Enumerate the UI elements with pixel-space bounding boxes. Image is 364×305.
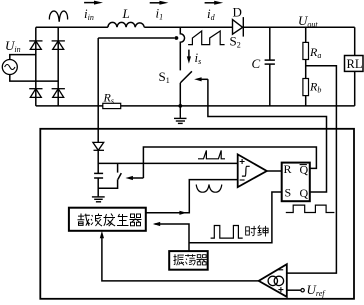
diode top-right xyxy=(52,41,65,50)
node dot S1 top xyxy=(175,36,179,40)
comparator U1 xyxy=(238,154,267,187)
wire RL xyxy=(354,27,356,106)
diode bottom-left xyxy=(29,89,42,98)
svg-text:Uref: Uref xyxy=(307,282,327,298)
resistor Rb xyxy=(303,79,309,96)
minus sign comparator xyxy=(240,179,245,181)
arrow sample xyxy=(131,177,143,179)
switch sample blade xyxy=(118,173,121,179)
plus sign error amp xyxy=(278,287,283,292)
carrier scallop waveform xyxy=(196,185,222,193)
AC source U_in xyxy=(2,60,17,75)
arrow i_1 xyxy=(150,2,161,4)
arrow i_d xyxy=(205,2,216,4)
wire source bottom xyxy=(10,75,58,82)
label text 载 xyxy=(78,214,90,226)
arrow gate into S1 xyxy=(200,78,208,80)
label text 钟 xyxy=(258,225,269,236)
svg-text:S1: S1 xyxy=(159,69,170,85)
svg-text:Q: Q xyxy=(300,186,309,200)
svg-text:Uin: Uin xyxy=(5,38,21,54)
svg-text:iin: iin xyxy=(84,6,94,22)
arrow clock into carrier xyxy=(153,222,160,226)
label text 器2 xyxy=(196,255,207,265)
label text 时 xyxy=(246,226,257,236)
capacitor sample xyxy=(94,173,103,178)
svg-text:Ra: Ra xyxy=(309,45,321,60)
wire diode to node xyxy=(97,150,99,173)
wire sense vertical xyxy=(97,38,99,142)
label text 发 xyxy=(104,214,116,227)
capacitor C xyxy=(269,27,271,106)
label text 振 xyxy=(174,254,184,265)
svg-text:Q: Q xyxy=(300,163,309,177)
EMI choke xyxy=(49,11,67,22)
wire top rail left xyxy=(36,26,108,28)
label text 器1 xyxy=(130,214,142,226)
svg-text:is: is xyxy=(195,50,202,66)
load box RL xyxy=(345,56,364,72)
wire error plus input xyxy=(287,289,301,291)
junction dot ground xyxy=(178,104,182,108)
infinity circles xyxy=(268,276,277,285)
flipflop U2 xyxy=(282,163,310,202)
resistor Ra xyxy=(303,42,309,59)
diode sample xyxy=(93,142,104,150)
node line to comparator xyxy=(98,162,238,164)
divider wire xyxy=(305,27,307,106)
label text 波 xyxy=(91,214,102,227)
wire comparator out xyxy=(267,170,282,172)
svg-text:Rb: Rb xyxy=(309,80,321,95)
inductor L xyxy=(108,22,144,27)
error amp U3 xyxy=(259,264,287,297)
resistor Rs xyxy=(103,103,121,108)
oscillator box xyxy=(169,251,208,270)
wire osc up xyxy=(155,224,189,251)
wire top rail mid xyxy=(144,26,232,28)
wire Qbar xyxy=(143,147,316,178)
wire S1 vertical with hop xyxy=(180,27,184,70)
wire S1 branch top xyxy=(98,37,174,39)
switch sample bottom xyxy=(98,179,117,188)
carrier generator box xyxy=(69,208,146,231)
wire top rail right xyxy=(243,26,355,28)
wire S input xyxy=(189,192,282,243)
arrow into carrier gen xyxy=(100,231,104,238)
label text 荡 xyxy=(185,254,196,265)
bridge left column xyxy=(35,27,37,106)
wire cap to ground xyxy=(97,178,99,196)
diode top-left xyxy=(29,41,42,50)
switch sample top stub xyxy=(117,163,119,172)
wire S1 lower xyxy=(179,83,181,106)
svg-text:C: C xyxy=(252,56,261,71)
diode D xyxy=(233,17,244,36)
bottom rail xyxy=(36,105,355,107)
svg-text:D: D xyxy=(233,5,242,20)
wire minus input xyxy=(146,180,238,213)
svg-text:Uout: Uout xyxy=(298,13,318,29)
step symbol comparator xyxy=(242,166,250,176)
ground power xyxy=(174,106,187,124)
svg-text:L: L xyxy=(122,6,130,21)
svg-text:i1: i1 xyxy=(156,6,164,22)
arrow is xyxy=(188,50,190,58)
arrow i_in xyxy=(84,2,95,4)
svg-text:RL: RL xyxy=(347,57,363,71)
is waveform xyxy=(188,31,225,45)
bridge right column xyxy=(57,27,59,106)
control box xyxy=(40,129,354,299)
arrow carrier out xyxy=(179,211,186,215)
svg-text:Rs: Rs xyxy=(103,91,114,106)
overbar Q xyxy=(300,164,307,166)
label text 生 xyxy=(117,214,129,226)
Q waveform xyxy=(286,205,335,212)
diode bottom-right xyxy=(52,89,65,98)
plus sign comparator xyxy=(240,159,245,164)
terminal Uref xyxy=(301,289,304,292)
ground sample xyxy=(92,197,105,202)
svg-text:S2: S2 xyxy=(230,34,241,50)
svg-text:R: R xyxy=(284,162,292,176)
switch S1 blade xyxy=(180,71,192,83)
clock waveform xyxy=(211,226,243,239)
wire gate xyxy=(208,79,327,192)
svg-text:id: id xyxy=(207,6,216,22)
sawtooth waveform xyxy=(198,150,225,158)
minus sign error amp xyxy=(278,269,283,271)
wire error minus input xyxy=(287,66,337,273)
wire source top xyxy=(10,55,36,60)
wire error amp out xyxy=(102,237,259,281)
svg-text:S: S xyxy=(285,186,292,200)
Chinese labels drawn as strokes xyxy=(78,214,269,266)
